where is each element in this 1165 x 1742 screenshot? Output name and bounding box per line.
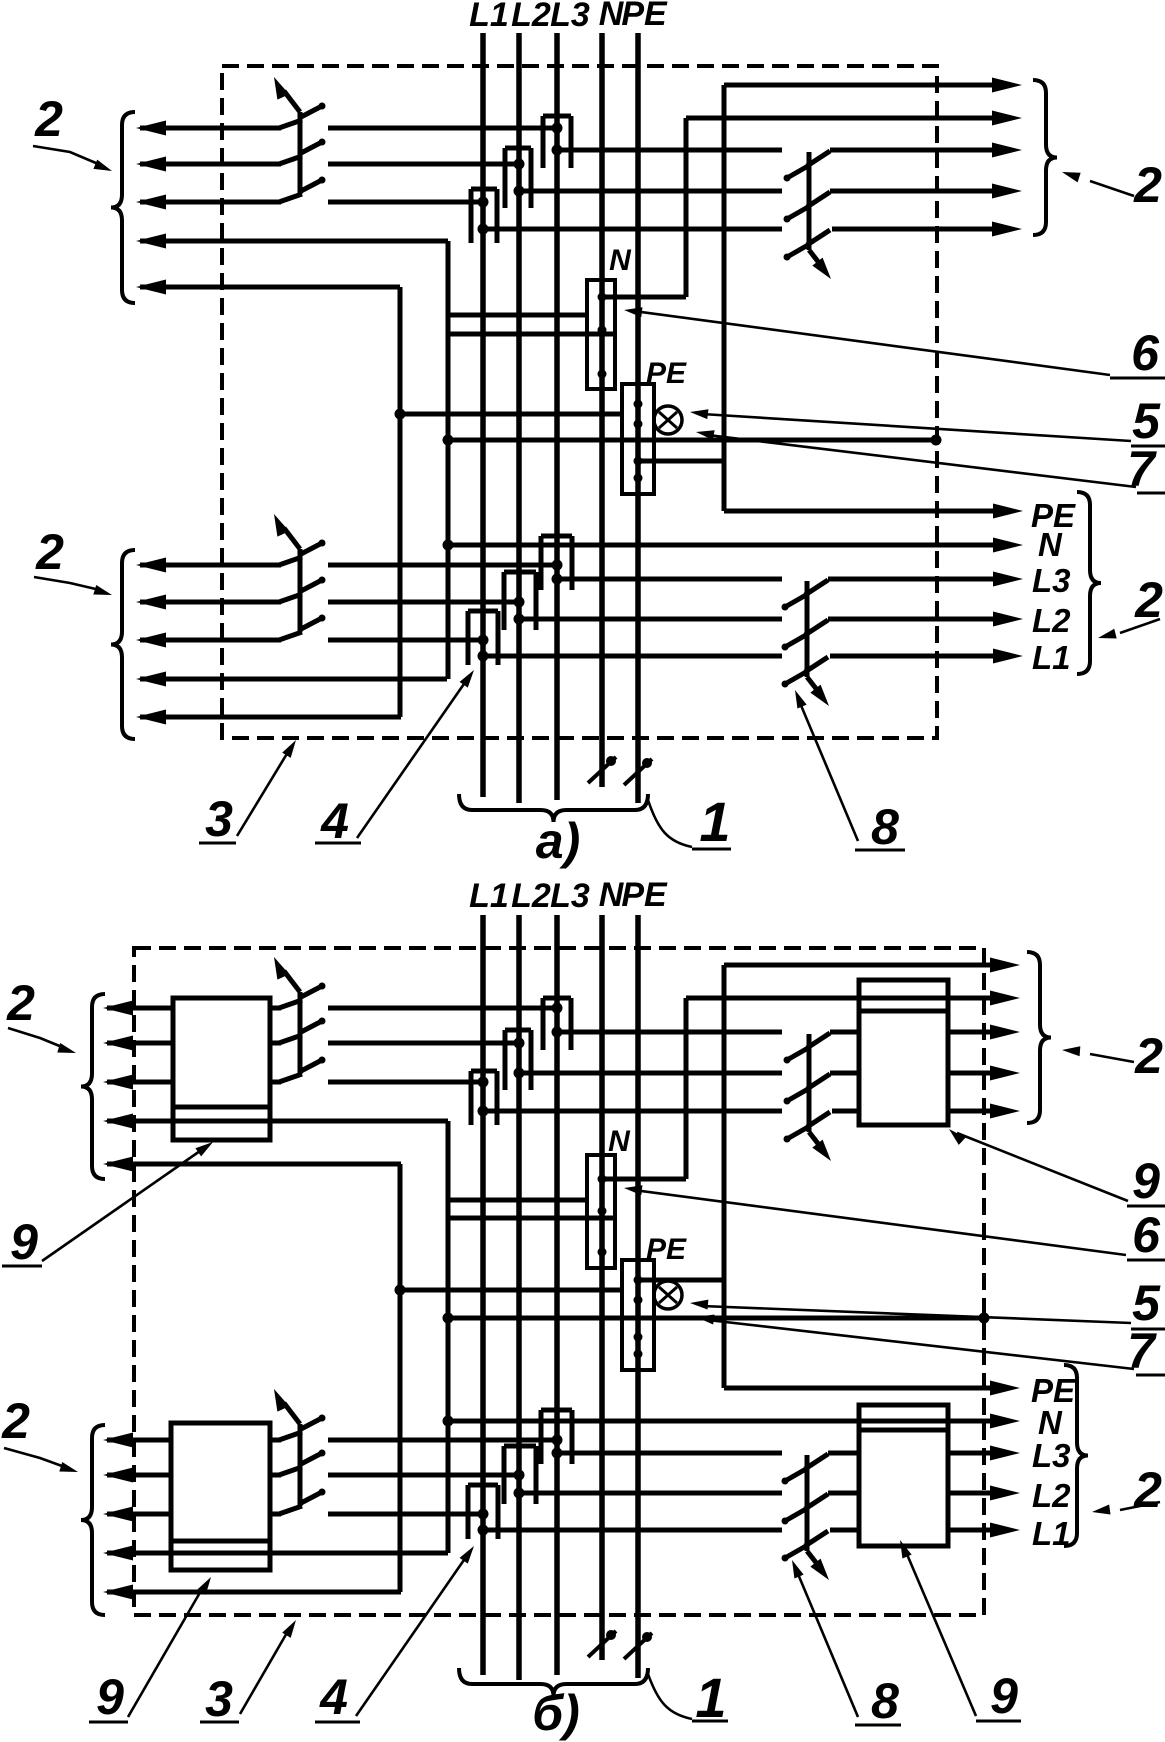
svg-text:L2: L2 [511,877,551,915]
svg-text:9: 9 [1132,1153,1160,1209]
svg-text:PE: PE [621,0,668,33]
svg-text:PE: PE [621,876,668,914]
svg-text:2: 2 [1133,157,1162,213]
svg-text:L1: L1 [469,877,509,915]
svg-text:N: N [608,1125,631,1158]
svg-text:PE: PE [646,1233,687,1266]
svg-text:4: 4 [320,793,349,849]
svg-text:L2: L2 [1032,1477,1071,1514]
svg-text:8: 8 [871,1673,899,1729]
svg-text:9: 9 [10,1214,38,1270]
svg-text:7: 7 [1127,441,1157,497]
svg-text:2: 2 [34,91,63,147]
svg-text:2: 2 [35,524,64,580]
svg-text:2: 2 [1,1393,30,1449]
svg-text:N: N [1038,526,1063,563]
svg-text:7: 7 [1127,1323,1157,1379]
svg-text:2: 2 [1133,1462,1162,1518]
svg-text:3: 3 [205,1671,233,1727]
svg-text:6: 6 [1132,1207,1161,1263]
svg-text:L1: L1 [469,0,509,34]
svg-text:L3: L3 [550,0,590,34]
svg-text:N: N [1038,1404,1063,1441]
svg-text:PE: PE [646,357,687,390]
svg-text:L3: L3 [550,877,590,915]
svg-text:L2: L2 [511,0,551,34]
svg-text:2: 2 [6,975,35,1031]
svg-text:L3: L3 [1032,562,1071,599]
svg-text:L3: L3 [1032,1437,1071,1474]
svg-text:4: 4 [319,1669,348,1725]
svg-text:а): а) [536,813,580,869]
svg-text:3: 3 [205,791,233,847]
svg-text:6: 6 [1131,325,1160,381]
svg-text:L2: L2 [1032,602,1071,639]
svg-text:9: 9 [990,1668,1018,1724]
svg-text:1: 1 [699,790,730,853]
svg-text:8: 8 [871,799,899,855]
svg-text:б): б) [532,1685,580,1741]
svg-text:N: N [609,244,632,277]
svg-text:9: 9 [96,1669,124,1725]
svg-text:L1: L1 [1032,639,1071,676]
svg-text:2: 2 [1134,1028,1163,1084]
